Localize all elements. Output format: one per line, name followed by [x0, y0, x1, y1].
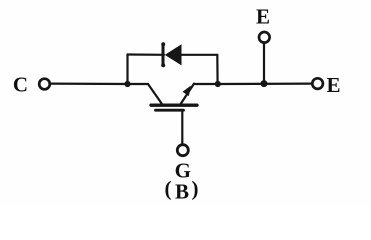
svg-text:(: ( [165, 177, 172, 201]
transistor Q1 emitter arrowhead [183, 86, 191, 96]
wire C to left node [51, 82, 128, 85]
diode D1 triangle (anode, pointing left) [165, 44, 182, 65]
diode D1 cathode bar end knobs [161, 42, 165, 46]
wire emitter to right node [194, 83, 218, 85]
svg-text:B: B [175, 179, 189, 203]
svg-text:C: C [13, 73, 28, 97]
svg-text:): ) [192, 177, 199, 201]
terminal circle E top [259, 32, 270, 43]
diode D1 cathode bar [162, 45, 165, 65]
transistor Q1 emitter diagonal [180, 84, 194, 105]
transistor Q1 body bar [151, 104, 197, 107]
svg-text:E: E [326, 73, 340, 97]
wire left node up to diode loop [126, 55, 128, 85]
wire right node to E junction and right terminal [218, 82, 312, 85]
transistor Q1 collector diagonal [148, 84, 162, 104]
transistor Q1 gate bar [156, 109, 184, 112]
junction node left (collector node) [124, 81, 130, 87]
junction node right (emitter node) [215, 81, 221, 87]
terminal circle C [39, 79, 50, 90]
terminal circle G [177, 145, 188, 156]
wire left node to collector bend [128, 83, 149, 85]
wire diode loop right vertical [216, 55, 219, 84]
svg-text:E: E [256, 5, 270, 29]
terminal circle E right [312, 78, 323, 89]
wire E junction up to top terminal [263, 43, 265, 83]
wire top-left of diode loop [128, 53, 165, 55]
wire gate down to G terminal [181, 111, 183, 144]
junction node E [261, 80, 268, 87]
wire top-right of diode loop [181, 54, 217, 56]
